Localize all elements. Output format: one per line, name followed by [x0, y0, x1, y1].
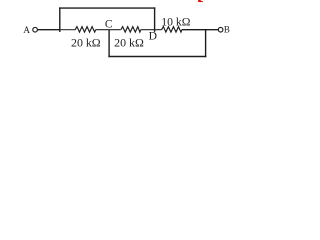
resistor R3 10 kOhm zigzag — [162, 27, 182, 32]
resistor R2 20 kOhm zigzag — [121, 27, 141, 32]
wire junction to terminal B — [207, 29, 218, 31]
red mark — [198, 0, 203, 2]
svg-text:A: A — [23, 26, 30, 36]
bottom branch right vertical wire — [205, 30, 207, 58]
wire R1 to node C — [96, 29, 121, 31]
svg-text:10 kΩ: 10 kΩ — [161, 16, 190, 29]
bottom branch left vertical wire — [108, 30, 110, 58]
terminal B circle — [218, 27, 223, 32]
wire node left to resistor R1 — [60, 29, 76, 31]
svg-text:D: D — [149, 29, 157, 42]
wire R2 to node D — [141, 29, 162, 31]
wire A to node left — [38, 29, 61, 31]
svg-text:B: B — [224, 25, 230, 35]
node left junction vertical riser — [59, 7, 61, 32]
svg-text:20 kΩ: 20 kΩ — [71, 35, 101, 49]
bottom rail wire — [108, 56, 206, 58]
top rail wire — [59, 7, 155, 9]
svg-text:20 kΩ: 20 kΩ — [114, 35, 144, 49]
terminal A circle — [33, 27, 38, 32]
svg-text:C: C — [105, 18, 113, 31]
resistor R1 20 kOhm zigzag — [75, 27, 96, 32]
top rail right vertical wire — [154, 7, 156, 32]
wire R3 to terminal B — [182, 29, 207, 31]
